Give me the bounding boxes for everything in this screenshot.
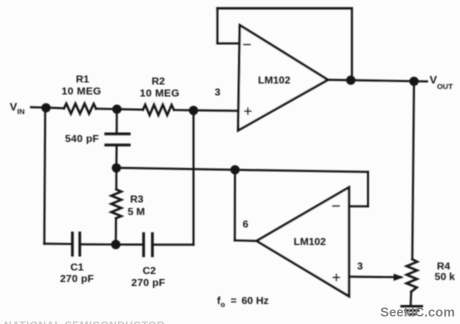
op-amp U2 plus pin bbox=[333, 276, 339, 278]
svg-text:LM102: LM102 bbox=[258, 75, 291, 86]
svg-text:270 pF: 270 pF bbox=[60, 274, 94, 285]
svg-text:50 k: 50 k bbox=[435, 272, 455, 283]
svg-text:LM102: LM102 bbox=[294, 237, 327, 248]
wire main: node A to R1 bbox=[46, 107, 64, 110]
op-amp U1 minus pin bbox=[244, 44, 250, 46]
node G junction U1 output bbox=[346, 76, 355, 85]
op-amp U1 plus pin bbox=[245, 110, 251, 112]
svg-text:270 pF: 270 pF bbox=[131, 278, 165, 289]
resistor R1 bbox=[64, 104, 96, 114]
capacitor 540pF bbox=[106, 132, 129, 135]
resistor R2 bbox=[143, 105, 174, 115]
wire R3 to node F bbox=[115, 218, 117, 244]
wire node B down to 540pF cap bbox=[116, 109, 118, 133]
svg-text:6: 6 bbox=[243, 220, 249, 231]
wire feedback left vertical bbox=[216, 8, 218, 43]
wire feedback right vertical down to node G bbox=[351, 8, 353, 80]
node F junction bbox=[111, 240, 120, 249]
resistor R3 bbox=[111, 189, 121, 218]
wire node C to op-amp U1 + input bbox=[194, 109, 239, 112]
wire C2 to right rail corner bbox=[154, 244, 194, 246]
node E junction bbox=[112, 163, 121, 172]
wire U2 minus stub bbox=[350, 205, 369, 207]
wire 540pF to node E bbox=[115, 146, 117, 168]
svg-text:R3: R3 bbox=[130, 194, 144, 205]
wire feedback top bbox=[217, 7, 352, 9]
wire U2 minus feedback down bbox=[367, 172, 369, 206]
svg-text:C2: C2 bbox=[143, 266, 157, 277]
svg-text:SeekIC.com: SeekIC.com bbox=[380, 305, 455, 320]
svg-text:3: 3 bbox=[357, 261, 363, 272]
svg-text:10 MEG: 10 MEG bbox=[140, 88, 180, 99]
wire U1 minus stub bbox=[217, 42, 239, 44]
op-amp U1 bbox=[238, 25, 328, 130]
op-amp U2 bbox=[257, 187, 349, 296]
wire left rail down from node A bbox=[43, 108, 46, 244]
svg-text:3: 3 bbox=[215, 88, 221, 99]
svg-text:R2: R2 bbox=[152, 77, 166, 88]
wire right rail up to node C bbox=[192, 110, 194, 244]
wire U1 output to VOUT bbox=[328, 80, 427, 82]
svg-text:5 M: 5 M bbox=[128, 207, 145, 218]
op-amp U2 minus pin bbox=[333, 205, 339, 207]
resistor R4 potentiometer bbox=[407, 259, 418, 291]
wire node F to C2 bbox=[116, 243, 142, 245]
wire VOUT node down to R4 bbox=[412, 81, 414, 259]
wire R1 to node B bbox=[96, 108, 117, 111]
wire C1 to node F bbox=[81, 243, 116, 245]
svg-text:R4: R4 bbox=[437, 261, 451, 272]
node B junction bbox=[112, 105, 121, 114]
capacitor C2 bbox=[142, 234, 145, 256]
node H junction VOUT bbox=[409, 77, 418, 86]
ground bbox=[402, 305, 422, 308]
svg-text:NATIONAL SEMICONDUCTOR: NATIONAL SEMICONDUCTOR bbox=[4, 320, 165, 324]
wiper arrowhead R4 bbox=[394, 274, 404, 281]
wire U2 output up to node D bbox=[234, 170, 236, 241]
svg-text:540 pF: 540 pF bbox=[65, 134, 99, 145]
svg-text:C1: C1 bbox=[70, 262, 84, 273]
wire U2 + input to R4 wiper bbox=[349, 276, 401, 279]
wire bottom rail left to C1 bbox=[44, 243, 71, 245]
svg-text:R1: R1 bbox=[76, 75, 90, 86]
capacitor C1 bbox=[71, 233, 74, 255]
wire node E to R3 bbox=[115, 168, 117, 190]
wire node B to R2 bbox=[117, 108, 143, 111]
node VIN terminal wire bbox=[31, 106, 46, 109]
node C junction bbox=[189, 106, 198, 115]
wire R2 to node C bbox=[174, 109, 194, 111]
svg-text:10 MEG: 10 MEG bbox=[62, 86, 102, 97]
wire R4 to ground bbox=[410, 292, 413, 304]
wire bootstrap: node E to node D to op-amp U2 minus corner bbox=[116, 168, 368, 172]
node D junction bbox=[230, 165, 239, 174]
node A junction bbox=[41, 103, 50, 112]
wire U2 output pin 6 from apex bbox=[235, 239, 257, 242]
